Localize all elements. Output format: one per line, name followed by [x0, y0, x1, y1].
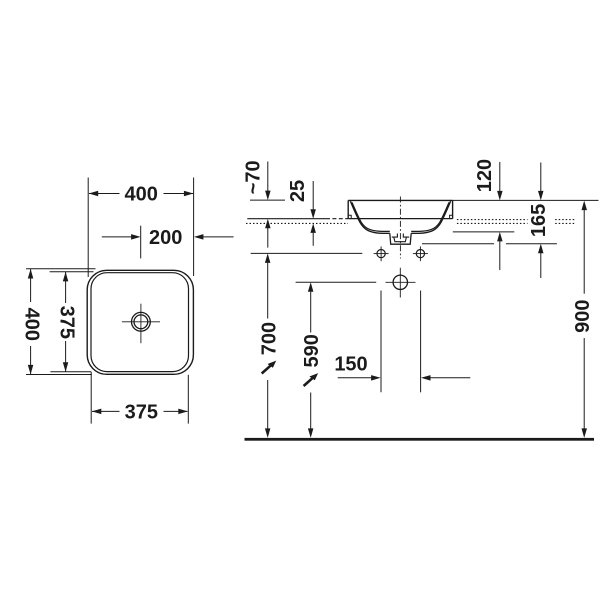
dim ~70 up arrow [265, 219, 271, 229]
label 375 bottom [120, 402, 164, 422]
dim 590 up arrow [308, 282, 314, 292]
dim 150 left ext line [380, 291, 382, 393]
dim 150 right arrowhead pointing right [371, 375, 381, 381]
basin right edge [452, 200, 454, 218]
dim 25 lower tail [312, 233, 314, 246]
svg-text:375: 375 [56, 306, 78, 339]
svg-text:165: 165 [528, 204, 550, 237]
bottom 375 arrow right [178, 409, 188, 415]
bowl inner curve [352, 202, 449, 231]
counter line dashed near basin [326, 218, 348, 220]
dim 165 down arrow [538, 191, 544, 201]
dim 120 down arrow [497, 191, 503, 201]
svg-text:400: 400 [125, 184, 158, 206]
left 400 arrow up [28, 269, 34, 279]
drain inner circle [134, 315, 148, 329]
dim 590 slanted arrow [304, 378, 313, 386]
dim ~70 lower tail [267, 228, 269, 248]
dim 165 upper line [540, 163, 542, 192]
dim 120 lower tail [499, 241, 501, 270]
bolt hole left circle [377, 250, 385, 258]
arrowhead right of 400 top [184, 191, 194, 196]
counter line solid left [247, 218, 326, 220]
left 400 dim line lower segment [30, 346, 32, 374]
bolt hole line [251, 252, 363, 254]
drain outlet extension line [296, 281, 377, 283]
dimension line 400 top [89, 193, 193, 195]
svg-text:200: 200 [149, 227, 182, 249]
svg-text:25: 25 [287, 180, 309, 202]
dim 900 lower line [583, 338, 585, 429]
bolt hole left crosshair [374, 253, 389, 255]
drain outlet crosshair vertical [399, 268, 401, 298]
drain crosshair vertical [140, 304, 142, 344]
basin rim top [348, 199, 452, 201]
drain outer circle [132, 312, 151, 331]
drain bottom reference line segment a [422, 243, 494, 245]
dim 700 down arrow [265, 428, 271, 438]
dimension 200 left line with arrow [102, 236, 132, 238]
left 375 arrow up [63, 272, 69, 282]
left 375 dim line lower segment [65, 341, 67, 372]
drain crosshair horizontal [122, 321, 160, 323]
dim 150 right ext line [420, 291, 422, 393]
rim top extension line left of basin [250, 199, 285, 201]
left 375 dim line upper segment [65, 272, 67, 303]
svg-text:400: 400 [21, 308, 43, 341]
arrowhead left of 400 top [89, 191, 99, 196]
drain outlet circle [393, 275, 407, 289]
bottom 375 arrow left [92, 409, 102, 415]
label 400 top [120, 184, 164, 204]
basin centerline dash-dot [399, 197, 401, 259]
bolt hole right crosshair [413, 253, 428, 255]
bowl outer curve right [411, 201, 450, 233]
left 400 dim: bottom ext line [26, 374, 92, 376]
bottom 375 dim line [92, 410, 188, 412]
extension line right of top 400 dim [193, 178, 195, 277]
dim 150 left line [338, 377, 372, 379]
svg-text:590: 590 [301, 334, 323, 367]
bottom 375 dim: left ext line [90, 372, 92, 424]
right dotted line upper segment b [555, 219, 576, 221]
drain fitting outer box [390, 233, 411, 244]
inner basin square [91, 273, 189, 372]
rim lip step right [450, 215, 453, 218]
dim 165 lower tail [540, 253, 542, 278]
drain fitting shelf left [392, 234, 398, 238]
bottom 375 dim: right ext line [187, 375, 189, 424]
dim 25 upper line [312, 181, 314, 209]
dim ~70 upper line [267, 162, 269, 192]
dim ~70 down arrow [265, 191, 271, 201]
svg-text:700: 700 [258, 322, 280, 355]
dim 900 up arrow [582, 201, 588, 211]
dim 590 down arrow [308, 428, 314, 438]
rim top line right of basin [453, 199, 599, 201]
svg-text:150: 150 [334, 354, 367, 376]
dim 25 down arrow [310, 209, 316, 219]
rim lip step left [348, 215, 351, 218]
left 400 arrow down [28, 365, 34, 375]
counter lower dotted line left [246, 222, 348, 224]
drain fitting inner cup [394, 237, 407, 242]
left 400 dim line upper segment [30, 269, 32, 302]
left 375 dim: bottom ext line [50, 371, 91, 373]
left 375 dim: top ext line [50, 271, 94, 273]
extension line left of top 400 dim [87, 178, 89, 278]
dim 700 upper line [267, 263, 269, 319]
dim 150 right line [430, 377, 470, 379]
outer basin square [87, 270, 193, 374]
drain fitting shelf right [403, 234, 409, 238]
dim 700 slanted arrow [262, 365, 271, 373]
left 375 arrow down [63, 362, 69, 372]
svg-text:120: 120 [474, 159, 496, 192]
dim 900 down arrow [582, 428, 588, 438]
dim 120 upper line [499, 162, 501, 191]
center tick above basin [140, 226, 142, 259]
floor line [245, 438, 595, 441]
dim 590 upper line [310, 292, 312, 333]
dim 900 upper line [583, 210, 585, 294]
dim 150 left arrowhead pointing left [421, 375, 431, 381]
right dotted line lower segment b [555, 222, 576, 224]
dim 700 up arrow [265, 253, 271, 263]
dim 25 up arrow [310, 223, 316, 233]
bowl bottom reference line right [453, 231, 515, 233]
dim 120 up arrow [497, 232, 503, 242]
dim 590 lower line [310, 393, 312, 429]
bowl outer curve left [350, 201, 389, 233]
left 400 dim: top ext line [26, 268, 96, 270]
bolt hole right circle [416, 250, 424, 258]
dim 700 lower line [267, 380, 269, 429]
right dotted line lower segment a [457, 222, 528, 224]
counter line under basin [348, 218, 452, 220]
svg-text:900: 900 [572, 300, 594, 333]
drain outlet crosshair horizontal [386, 281, 416, 283]
svg-text:375: 375 [125, 402, 158, 424]
dimension 200 right line with arrow [203, 236, 234, 238]
dim 165 up arrow [538, 244, 544, 254]
basin left edge [347, 200, 349, 218]
right dotted line upper segment a [457, 219, 528, 221]
drain bottom reference line segment b [506, 243, 557, 245]
svg-text:~70: ~70 [243, 160, 265, 194]
